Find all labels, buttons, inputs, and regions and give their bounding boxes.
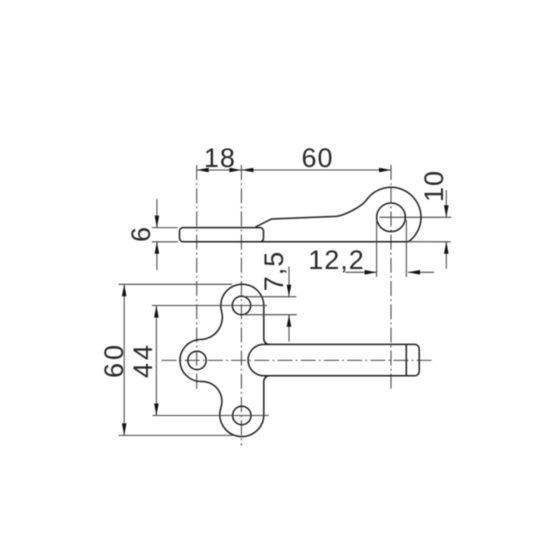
bottom view: plate outline bbox=[180, 284, 269, 436]
dim 10 bbox=[445, 190, 447, 217]
top view: arm upper profile and boss bbox=[256, 187, 422, 241]
dim line 18/60 bbox=[197, 169, 391, 171]
dim 6 lines+arrows bbox=[156, 199, 158, 228]
dim 7,5 ext lines bbox=[243, 296, 297, 298]
centerline boss vertical bbox=[390, 165, 392, 392]
dimension text 6 bbox=[128, 226, 155, 242]
dimension text 60 (top view) bbox=[301, 145, 333, 172]
dimension text 44 bbox=[130, 342, 157, 378]
top view: bottom edge line bbox=[183, 241, 408, 243]
dim 60 ext lines bbox=[119, 283, 233, 285]
top view: bottom ext line to dim 10 bbox=[408, 241, 450, 243]
bottom view: rod bbox=[248, 344, 419, 375]
dimension text 12,2 bbox=[308, 246, 365, 273]
dimension text 10 bbox=[421, 170, 448, 202]
dim 12,2 lines+arrows bbox=[346, 271, 377, 273]
centerline plate vertical through top/bottom holes bbox=[240, 165, 242, 446]
top view: plate bar (edge view) bbox=[180, 228, 264, 242]
top hole horizontal centerline / dim44 ext bbox=[152, 305, 267, 307]
left hole bbox=[188, 351, 206, 369]
dimension text 60 (plate height) bbox=[100, 342, 127, 378]
bottom hole bbox=[233, 406, 251, 424]
dim 60 line+arrows bbox=[123, 284, 125, 435]
bottom hole horizontal centerline / dim44 ext bbox=[153, 415, 269, 417]
dimension text 7,5 bbox=[260, 251, 287, 292]
dimension text 18 bbox=[204, 145, 236, 172]
dim 12,2 ext lines bbox=[376, 220, 378, 277]
top hole bbox=[232, 296, 250, 314]
centerline boss horizontal bbox=[380, 216, 452, 218]
centerline left hole vertical (ext of dim 18) bbox=[196, 165, 198, 389]
rod step line bbox=[405, 344, 407, 375]
boss hole circle d12.2 bbox=[377, 203, 406, 232]
dim 44 bbox=[155, 306, 157, 416]
centerline rod horizontal bbox=[162, 359, 434, 361]
dim 7,5 lines+arrows bbox=[288, 267, 290, 297]
dim 6 ext lines bbox=[152, 227, 178, 229]
